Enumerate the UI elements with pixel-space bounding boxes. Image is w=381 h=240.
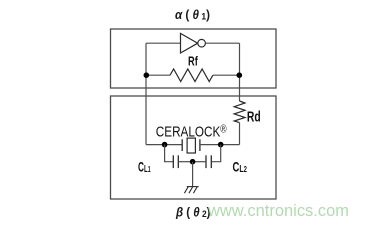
wire resonator right lead (200, 144, 240, 146)
svg-text:β ( θ 2): β ( θ 2) (175, 204, 210, 220)
junction node left of Rf (144, 72, 150, 78)
svg-text:CL2: CL2 (233, 160, 248, 175)
box resonator block (beta) (111, 96, 277, 199)
wire Rf left lead (146, 74, 170, 76)
svg-text:Rf: Rf (188, 54, 198, 68)
wire CL1 to center node (178, 161, 192, 163)
resonator X1 body (187, 138, 195, 153)
ground (184, 187, 198, 194)
junction node center (caps common) (190, 159, 196, 165)
junction node right of Rf (237, 72, 243, 78)
wire inverter output (right, y=43) (205, 42, 239, 44)
resistor Rd (vertical) (234, 101, 245, 123)
wire CL1 drop (node A down) (165, 145, 174, 162)
inverter U1 output bubble (198, 39, 206, 47)
wire ground drop (192, 162, 194, 187)
resistor Rf (170, 69, 213, 82)
wire resonator left lead (y=144.6) (146, 144, 182, 146)
wire inverter input (left, y=43) (146, 42, 181, 44)
wire left vertical (x=146, from inverter input down into beta box) (145, 43, 147, 144)
wire CL2 drop (node B down) (211, 145, 220, 162)
svg-text:CL1: CL1 (138, 160, 151, 175)
wire Rf right lead (213, 74, 240, 76)
wire CL2 to center node (193, 161, 206, 163)
junction node B (resonator right) (218, 142, 224, 148)
box U1 inverter block (alpha) (111, 29, 277, 88)
resonator X1 right plate (199, 139, 201, 151)
capacitor CL1 (172, 155, 174, 168)
svg-text:Rd: Rd (247, 109, 261, 126)
wire right vertical lower (Rd to resonator line) (239, 123, 241, 145)
svg-text:α ( θ 1): α ( θ 1) (175, 7, 210, 23)
op-amp U1 (inverter triangle) (181, 33, 198, 53)
svg-text:www.cntronics.com: www.cntronics.com (207, 201, 349, 220)
resonator X1 left plate (181, 139, 183, 151)
capacitor CL2 (210, 155, 212, 168)
wire right vertical upper (x=239.5, output down to Rd) (239, 43, 241, 101)
junction node A (resonator left) (162, 142, 168, 148)
